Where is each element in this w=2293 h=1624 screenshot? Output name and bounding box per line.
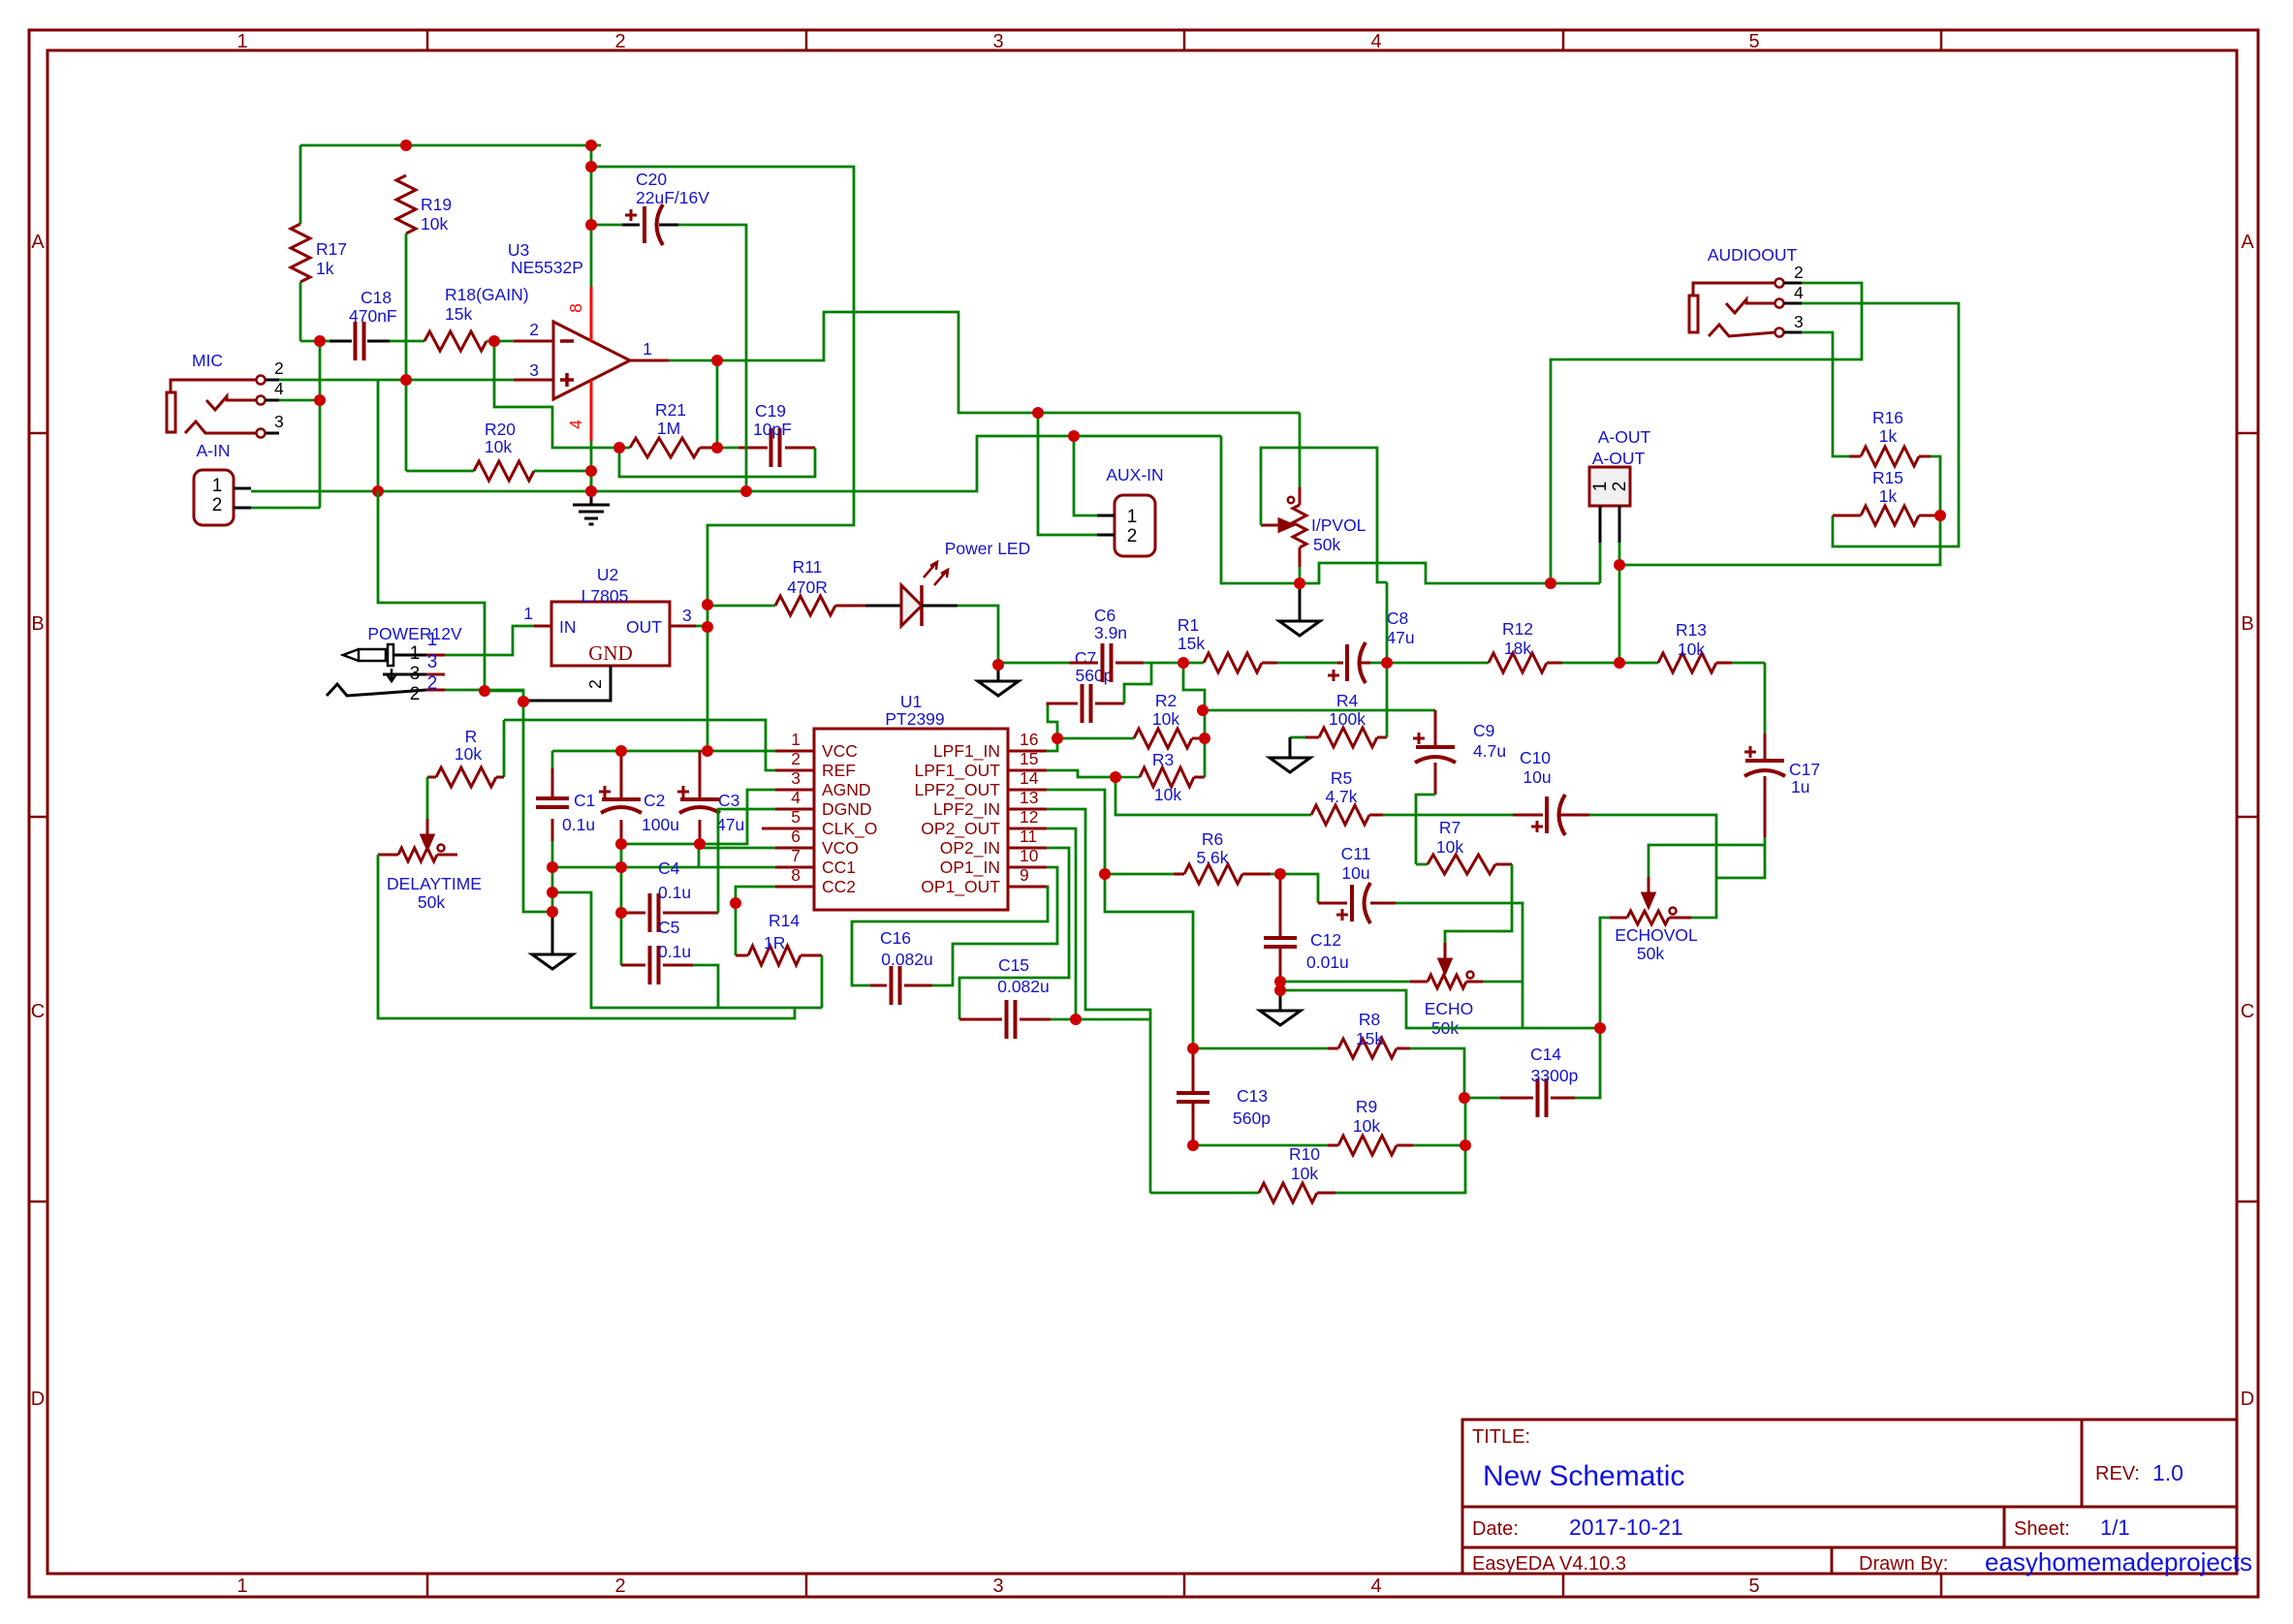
svg-text:10k: 10k: [1154, 785, 1181, 804]
svg-text:AUX-IN: AUX-IN: [1106, 465, 1163, 484]
U1 pin 15 lead: [1008, 769, 1047, 772]
U1 pin 16 lead: [1008, 750, 1047, 753]
svg-text:R10: R10: [1289, 1144, 1320, 1164]
svg-text:4: 4: [274, 379, 284, 398]
svg-text:R11: R11: [793, 557, 823, 577]
svg-text:U2: U2: [597, 565, 618, 584]
svg-text:C13: C13: [1237, 1086, 1268, 1106]
wire C8 node column: [1386, 582, 1389, 737]
svg-text:1: 1: [410, 643, 421, 664]
svg-text:AUDIOOUT: AUDIOOUT: [1708, 245, 1798, 265]
wire pin4 to R20 row: [590, 441, 593, 491]
wire pin3 row: [279, 379, 514, 382]
svg-text:1: 1: [523, 604, 533, 623]
capacitor C3 plates: [680, 797, 719, 801]
resistor R13 body: [1658, 653, 1716, 672]
potentiometer ECHOVOL body: [1627, 911, 1669, 924]
svg-text:R17: R17: [316, 239, 347, 259]
wire REF rail: [504, 720, 775, 770]
svg-text:DELAYTIME: DELAYTIME: [387, 874, 482, 893]
wire C5 right to bottom rail: [693, 965, 718, 1008]
wire pin11 to C15: [959, 848, 1069, 1019]
svg-text:2: 2: [585, 679, 605, 689]
wire IPVOL wiper to C8: [1261, 448, 1387, 582]
wire C19 feedback loop: [619, 448, 815, 477]
svg-text:50k: 50k: [1637, 944, 1664, 963]
wire C18 to R18: [390, 340, 424, 343]
svg-text:B: B: [2241, 613, 2253, 635]
svg-text:10u: 10u: [1523, 767, 1551, 787]
svg-text:2: 2: [212, 495, 223, 515]
svg-text:OP2_OUT: OP2_OUT: [921, 819, 1000, 839]
svg-text:C20: C20: [636, 170, 667, 189]
capacitor C15 plates: [1007, 1000, 1016, 1039]
wire VCC rail caps: [552, 750, 775, 753]
resistor R14 body: [748, 946, 801, 965]
svg-text:0.1u: 0.1u: [658, 883, 691, 902]
svg-text:REF: REF: [822, 761, 856, 780]
svg-text:LPF2_OUT: LPF2_OUT: [915, 780, 1001, 800]
resistor R2 body: [1134, 729, 1192, 748]
svg-text:R18(GAIN): R18(GAIN): [445, 285, 529, 304]
capacitor C8: [1337, 662, 1370, 665]
ground C12: [1260, 1011, 1301, 1025]
potentiometer DELAYTIME body: [398, 848, 437, 861]
wire mic ground bus down: [378, 491, 485, 691]
wire C11 right: [1396, 903, 1523, 1028]
resistor R17 body: [291, 224, 310, 282]
resistor R12 body: [1489, 653, 1547, 672]
wire VCO branch: [699, 848, 775, 867]
wire +5V to C20/pin8 column: [590, 145, 593, 287]
capacitor C3: [699, 751, 702, 844]
svg-text:POWER12V: POWER12V: [367, 624, 462, 643]
svg-text:50k: 50k: [1313, 535, 1340, 554]
wire R14 right down: [821, 955, 824, 1008]
wire R3 left down to R5 row: [1115, 777, 1311, 815]
resistor R3: [1115, 776, 1140, 779]
wire C17 bottom: [1716, 837, 1765, 878]
svg-text:REV:: REV:: [2095, 1463, 2140, 1484]
svg-text:5.6k: 5.6k: [1196, 848, 1228, 867]
svg-text:C12: C12: [1310, 930, 1341, 950]
resistor R4 body: [1319, 728, 1377, 747]
svg-text:R5: R5: [1331, 768, 1352, 788]
wire ECHOVOL left down: [1600, 918, 1610, 1028]
wire +5V feed right: [591, 167, 854, 751]
resistor R8 body: [1338, 1039, 1397, 1058]
svg-text:10k: 10k: [1152, 709, 1179, 729]
U1 pin 12 lead: [1008, 828, 1047, 830]
svg-text:C8: C8: [1387, 609, 1408, 628]
svg-text:8: 8: [791, 865, 801, 885]
svg-text:1: 1: [236, 1576, 247, 1597]
svg-text:1.0: 1.0: [2152, 1460, 2183, 1485]
wire C1 ground chain: [551, 867, 554, 912]
svg-text:easyhomemadeprojects: easyhomemadeprojects: [1985, 1547, 2252, 1577]
wire A-OUT pin2 to R15 net: [1619, 515, 1940, 565]
svg-text:A-OUT: A-OUT: [1598, 427, 1651, 447]
svg-text:Drawn By:: Drawn By:: [1859, 1553, 1948, 1575]
U1 pin 11 lead: [1008, 847, 1047, 850]
svg-text:EasyEDA V4.10.3: EasyEDA V4.10.3: [1472, 1553, 1626, 1575]
U2 pin3 lead: [670, 625, 696, 628]
ground R4: [1270, 758, 1310, 772]
ground opamp: [573, 505, 610, 524]
svg-text:100u: 100u: [642, 815, 679, 834]
resistor R3 body: [1140, 767, 1194, 787]
wire AUDIOOUT pin2 sleeve to ground: [1551, 283, 1862, 583]
svg-text:R14: R14: [769, 911, 800, 930]
resistor R16: [1849, 455, 1861, 458]
svg-text:I/PVOL: I/PVOL: [1311, 515, 1366, 535]
svg-text:14: 14: [1020, 768, 1039, 788]
resistor R10 body: [1259, 1183, 1317, 1202]
capacitor C6 plates: [1103, 643, 1112, 682]
U1 pin 6 lead: [775, 847, 814, 850]
capacitor C6: [1069, 662, 1144, 665]
svg-text:CC1: CC1: [822, 858, 856, 877]
capacitor C19 plates: [771, 428, 780, 467]
svg-text:OP2_IN: OP2_IN: [940, 838, 1000, 859]
capacitor C5 plates: [650, 946, 659, 984]
wire AUX pin2: [1038, 413, 1097, 535]
resistor R7 body: [1428, 855, 1495, 874]
svg-text:R19: R19: [421, 195, 452, 214]
svg-text:0.082u: 0.082u: [997, 977, 1050, 996]
wire A-OUT pin1 to ground run: [1599, 543, 1602, 583]
ground LED node: [978, 681, 1019, 696]
capacitor C16 plates: [892, 966, 900, 1005]
U1 pin 13 lead: [1008, 808, 1047, 811]
wire AGND row: [621, 790, 775, 844]
svg-text:15k: 15k: [445, 304, 472, 324]
ground R4: [1289, 737, 1292, 758]
wire signal to IPVOL top: [1299, 413, 1302, 487]
wire ground column to cap block: [523, 702, 552, 912]
svg-text:AGND: AGND: [822, 780, 871, 799]
svg-text:100k: 100k: [1329, 709, 1366, 729]
wire C7 right up to row: [1124, 663, 1151, 703]
U1 pin 2 lead: [775, 769, 814, 772]
svg-text:10k: 10k: [455, 744, 482, 764]
svg-text:15k: 15k: [1178, 634, 1205, 653]
wire top +5V rail: [300, 144, 601, 147]
wire ground run to C14 node: [1280, 990, 1600, 1028]
svg-text:PT2399: PT2399: [885, 709, 944, 729]
capacitor C13: [1192, 1048, 1195, 1145]
capacitor C12 plates: [1264, 938, 1297, 947]
svg-text:470R: 470R: [787, 578, 828, 597]
wire C9 top row: [1205, 709, 1435, 712]
svg-text:3: 3: [1794, 312, 1804, 331]
U1 pin 5 lead: [762, 828, 814, 830]
svg-text:MIC: MIC: [192, 351, 223, 370]
wire to C11: [1280, 874, 1318, 903]
wire DELAYTIME left to R14 row: [378, 855, 795, 1018]
svg-text:C15: C15: [998, 955, 1029, 975]
wire C18 node column: [319, 341, 322, 508]
wire ground run to A-OUT: [1300, 563, 1600, 583]
svg-text:15k: 15k: [1356, 1029, 1383, 1048]
svg-text:A: A: [31, 232, 45, 253]
ground cap block: [532, 954, 573, 969]
resistor R9 body: [1338, 1136, 1397, 1155]
svg-text:D: D: [2241, 1389, 2254, 1410]
svg-text:B: B: [31, 613, 44, 635]
svg-text:2017-10-21: 2017-10-21: [1569, 1515, 1683, 1540]
wire MIC tip to C18 node: [279, 399, 320, 402]
svg-text:3: 3: [791, 768, 801, 788]
resistor R17: [299, 145, 302, 224]
wire C7 loop: [1048, 705, 1057, 738]
svg-text:C5: C5: [658, 918, 679, 937]
svg-text:CLK_O: CLK_O: [822, 819, 877, 839]
svg-text:R6: R6: [1202, 829, 1223, 849]
svg-text:18k: 18k: [1504, 639, 1531, 658]
capacitor C9: [1434, 710, 1437, 747]
capacitor C18 plates: [356, 322, 364, 360]
svg-text:10k: 10k: [1291, 1164, 1318, 1183]
resistor R20 body: [474, 461, 534, 481]
svg-text:NE5532P: NE5532P: [511, 258, 583, 277]
wire R17 to C18: [300, 340, 330, 343]
svg-text:1u: 1u: [1791, 777, 1809, 796]
svg-text:16: 16: [1020, 730, 1038, 749]
capacitor C2: [620, 751, 623, 844]
wire A-IN pin2: [251, 507, 320, 510]
wire pin10 to C16: [932, 867, 1057, 985]
capacitor C10: [1513, 814, 1589, 817]
wire R to DELAYTIME wiper: [426, 777, 429, 819]
svg-text:R8: R8: [1359, 1010, 1380, 1029]
svg-text:A-OUT: A-OUT: [1592, 449, 1646, 468]
wire R right riser: [503, 720, 506, 777]
svg-text:3: 3: [682, 606, 692, 625]
svg-text:1: 1: [1127, 507, 1138, 527]
wire to R21: [619, 447, 630, 450]
svg-text:C11: C11: [1341, 844, 1371, 863]
svg-text:560p: 560p: [1076, 666, 1114, 685]
resistor R16 body: [1861, 447, 1919, 466]
svg-text:2: 2: [1794, 263, 1804, 282]
svg-text:10k: 10k: [1436, 837, 1463, 857]
op-amp U3: [553, 322, 630, 399]
svg-text:3: 3: [427, 652, 438, 672]
svg-text:9: 9: [1020, 865, 1029, 885]
IC U1 PT2399: [814, 729, 1008, 910]
wire C9 bottom to R5 row: [1416, 795, 1435, 864]
svg-text:R: R: [465, 727, 478, 746]
svg-text:5: 5: [791, 807, 801, 827]
wire AUDIOOUT pin4 tip: [1802, 303, 1959, 547]
wire POWER pin2 ground: [445, 690, 523, 702]
svg-text:2: 2: [427, 673, 438, 694]
capacitor C20: [591, 224, 622, 227]
U1 pin 1 lead: [775, 750, 814, 753]
capacitor C4 plates: [650, 893, 659, 932]
U1 pin 9 lead: [1008, 886, 1047, 889]
capacitor C1: [551, 751, 554, 768]
svg-text:1k: 1k: [316, 259, 334, 278]
capacitor C15: [959, 1018, 1051, 1021]
svg-text:C7: C7: [1075, 648, 1096, 668]
wire MIC sleeve to ground rail: [377, 380, 380, 491]
capacitor C7 plates: [1083, 684, 1091, 723]
svg-text:4: 4: [791, 788, 801, 807]
svg-text:R20: R20: [485, 420, 516, 439]
svg-text:A-IN: A-IN: [197, 441, 231, 460]
wire ECHOVOL wiper: [1649, 845, 1765, 877]
wire AUX pin1: [1074, 436, 1097, 515]
capacitor C16: [870, 984, 932, 987]
capacitor C13 plates: [1177, 1093, 1209, 1102]
U1 pin 10 lead: [1008, 866, 1047, 869]
wire C15 right: [1051, 1018, 1150, 1021]
svg-text:6: 6: [791, 827, 801, 846]
svg-text:R15: R15: [1872, 468, 1903, 487]
svg-text:1: 1: [791, 730, 801, 749]
U1 pin 8 lead: [775, 886, 814, 889]
potentiometer ECHO body: [1428, 975, 1466, 988]
svg-text:4.7k: 4.7k: [1325, 787, 1357, 806]
svg-text:IN: IN: [559, 617, 577, 637]
U3 pin3 lead: [514, 379, 553, 382]
capacitor C5: [620, 913, 623, 965]
svg-text:10pF: 10pF: [753, 420, 792, 439]
svg-text:VCC: VCC: [822, 741, 858, 761]
svg-text:C3: C3: [718, 791, 739, 810]
voltage regulator U2 L7805: [551, 602, 670, 666]
svg-text:C19: C19: [755, 401, 786, 421]
capacitor C7: [1048, 703, 1124, 705]
wire AUDIOOUT pin3 ring to R16: [1802, 332, 1849, 456]
svg-text:R2: R2: [1155, 691, 1177, 710]
wire POWER pin1 to U2 IN: [445, 626, 534, 655]
svg-text:22uF/16V: 22uF/16V: [636, 188, 709, 207]
svg-text:1: 1: [643, 339, 652, 359]
svg-text:4: 4: [1794, 283, 1804, 302]
wire pin12 to C15 node: [1047, 828, 1076, 1019]
svg-text:C1: C1: [574, 791, 595, 810]
U3 pin2 lead: [514, 340, 553, 343]
svg-text:OUT: OUT: [626, 617, 662, 637]
svg-text:Power LED: Power LED: [945, 539, 1031, 558]
U1 pin 4 lead: [775, 808, 814, 811]
svg-text:C2: C2: [644, 791, 665, 810]
svg-text:Sheet:: Sheet:: [2014, 1518, 2070, 1540]
svg-text:C: C: [2241, 1001, 2254, 1022]
resistor R8: [1193, 1047, 1328, 1050]
wire CC1 row: [552, 866, 775, 869]
svg-text:R12: R12: [1502, 619, 1533, 639]
wire CC2 to R14: [736, 887, 775, 903]
wire R13 to C17: [1764, 663, 1767, 734]
wire LED node to C6: [998, 662, 1069, 665]
wire R16 right down: [1931, 456, 1940, 515]
svg-text:R7: R7: [1439, 818, 1461, 837]
U3 pin4 stub: [590, 380, 593, 441]
svg-text:10: 10: [1020, 846, 1039, 865]
svg-text:C17: C17: [1789, 760, 1820, 779]
wire R9 right to C14: [1464, 1098, 1467, 1145]
capacitor C14 plates: [1538, 1078, 1547, 1117]
svg-text:ECHO: ECHO: [1425, 999, 1474, 1018]
wire ECHO left: [1280, 981, 1410, 984]
resistor R5 body: [1311, 805, 1369, 825]
wire R2 row: [1057, 737, 1134, 740]
svg-text:0.082u: 0.082u: [881, 950, 933, 969]
resistor R18 body: [424, 331, 487, 351]
svg-text:1k: 1k: [1879, 426, 1898, 446]
svg-text:ECHOVOL: ECHOVOL: [1615, 925, 1698, 945]
svg-text:12: 12: [1020, 807, 1038, 827]
svg-text:2: 2: [1127, 526, 1138, 547]
svg-text:10k: 10k: [485, 437, 512, 456]
svg-text:C14: C14: [1530, 1045, 1561, 1064]
svg-text:470nF: 470nF: [349, 306, 397, 326]
wire R7 to ECHO wiper: [1445, 864, 1512, 943]
svg-text:560p: 560p: [1233, 1109, 1271, 1128]
U3 pin8 stub: [590, 287, 593, 341]
resistor R body: [436, 767, 496, 787]
svg-text:C: C: [31, 1001, 45, 1022]
potentiometer ECHOVOL: [1610, 917, 1627, 920]
svg-text:C16: C16: [880, 928, 911, 948]
svg-text:47u: 47u: [716, 815, 744, 834]
svg-text:L7805: L7805: [581, 586, 629, 606]
svg-text:LPF1_IN: LPF1_IN: [933, 741, 1000, 762]
wire pin15 to R3: [1047, 770, 1115, 777]
svg-text:3: 3: [274, 412, 284, 431]
svg-text:4: 4: [1370, 31, 1381, 52]
svg-text:OP1_IN: OP1_IN: [940, 858, 1000, 878]
capacitor C4: [620, 867, 623, 913]
svg-text:OP1_OUT: OP1_OUT: [921, 877, 1000, 897]
resistor R10: [1150, 1192, 1259, 1195]
svg-text:47u: 47u: [1386, 628, 1414, 647]
svg-text:R9: R9: [1356, 1097, 1377, 1116]
svg-text:5: 5: [1748, 1576, 1759, 1597]
svg-text:2: 2: [1610, 482, 1630, 492]
svg-text:3.9n: 3.9n: [1094, 623, 1127, 642]
svg-text:0.1u: 0.1u: [658, 942, 691, 961]
wire R2/R3 right column: [1183, 663, 1205, 777]
svg-text:2: 2: [614, 1576, 625, 1597]
svg-text:10k: 10k: [1353, 1116, 1380, 1136]
svg-text:CC2: CC2: [822, 877, 856, 896]
wire R19 column to R20: [405, 380, 408, 471]
svg-text:3: 3: [992, 31, 1003, 52]
wire C20 right to ground rail: [678, 225, 746, 491]
svg-text:3: 3: [992, 1576, 1003, 1597]
svg-text:R4: R4: [1336, 691, 1359, 710]
svg-text:1: 1: [236, 31, 247, 52]
wire AUX right loop to IPVOL gnd: [1221, 436, 1300, 583]
wire A-OUT pin2 down: [1618, 543, 1621, 662]
wire feedback pin2 down: [494, 341, 619, 448]
wire pin14 to R6 and C13: [1047, 790, 1193, 1048]
wire C10 right to ECHOVOL: [1589, 815, 1716, 918]
svg-text:VCO: VCO: [822, 838, 859, 858]
svg-text:4.7u: 4.7u: [1473, 741, 1506, 761]
svg-text:R13: R13: [1676, 620, 1707, 640]
svg-text:5: 5: [1748, 31, 1759, 52]
svg-text:Date:: Date:: [1472, 1518, 1519, 1540]
svg-text:11: 11: [1020, 827, 1037, 846]
U2 GND pin2: [528, 666, 611, 701]
svg-text:4: 4: [1370, 1576, 1381, 1597]
